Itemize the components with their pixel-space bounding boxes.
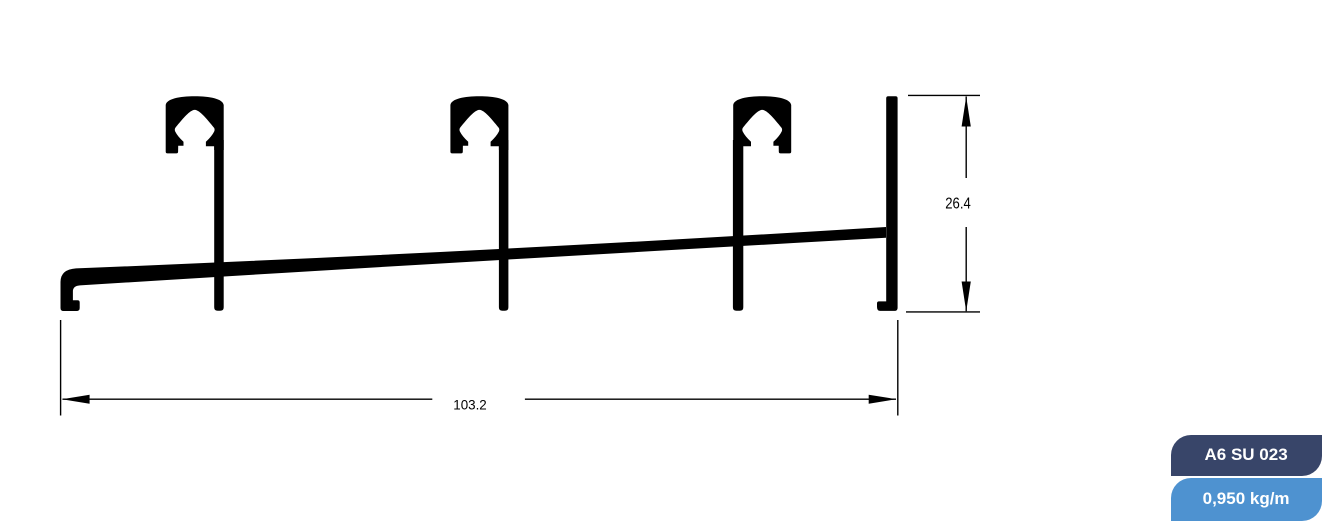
stem 3 — [733, 140, 743, 311]
label box A6 SU 023 — [1171, 435, 1322, 476]
svg-text:103.2: 103.2 — [453, 396, 487, 412]
svg-text:26.4: 26.4 — [945, 195, 971, 212]
arrow down — [962, 282, 971, 312]
dimension line 103.2 left segment — [63, 398, 433, 400]
extension line bottom (26.4) — [906, 311, 980, 313]
right vertical wall with bottom foot — [877, 96, 898, 311]
hook 2 — [450, 96, 508, 153]
stem 1 — [214, 140, 224, 311]
extension line left — [60, 320, 62, 416]
inclined bottom bar with left end leg and foot — [61, 227, 887, 311]
extension line top (26.4) — [908, 94, 980, 96]
hook 1 — [166, 96, 224, 153]
extension line right — [897, 320, 899, 416]
arrow up — [962, 97, 971, 127]
stem 2 — [499, 140, 509, 311]
arrow left — [62, 395, 90, 404]
dimension line 26.4 upper segment — [965, 97, 967, 179]
hook 3 (mirrored) — [733, 96, 791, 153]
dimension line 103.2 right segment — [525, 398, 896, 400]
dimension line 26.4 lower segment — [965, 227, 967, 311]
arrow right — [869, 395, 897, 404]
label box 0,950 kg/m — [1171, 478, 1322, 521]
